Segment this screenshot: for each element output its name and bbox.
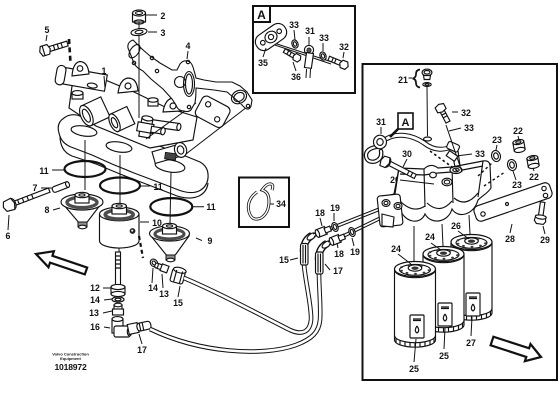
svg-text:11: 11 [206,202,215,212]
svg-text:33: 33 [464,123,474,133]
svg-text:18: 18 [315,208,325,218]
svg-text:21: 21 [398,75,408,85]
svg-text:14: 14 [148,283,158,293]
svg-text:25: 25 [439,351,449,361]
svg-text:32: 32 [461,108,471,118]
svg-text:33: 33 [475,149,485,159]
svg-text:28: 28 [505,234,515,244]
svg-text:2: 2 [161,11,166,21]
svg-text:24: 24 [425,232,435,242]
svg-text:31: 31 [376,117,386,127]
svg-text:27: 27 [466,338,476,348]
svg-text:16: 16 [90,322,100,332]
svg-text:33: 33 [319,33,329,43]
svg-text:A: A [402,117,410,129]
svg-text:30: 30 [402,149,412,159]
svg-text:8: 8 [45,205,50,215]
svg-text:13: 13 [89,308,99,318]
svg-text:36: 36 [291,72,301,82]
svg-text:17: 17 [333,266,343,276]
svg-text:26: 26 [451,221,461,231]
svg-text:19: 19 [330,203,340,213]
svg-text:15: 15 [279,255,289,265]
svg-text:1018972: 1018972 [54,362,86,372]
svg-text:23: 23 [492,135,502,145]
svg-text:29: 29 [540,235,550,245]
svg-text:12: 12 [90,283,100,293]
svg-text:7: 7 [33,183,38,193]
svg-text:9: 9 [208,236,213,246]
svg-text:18: 18 [334,249,344,259]
svg-text:24: 24 [391,244,401,254]
svg-text:23: 23 [512,180,522,190]
svg-text:34: 34 [276,199,286,209]
svg-text:14: 14 [90,295,100,305]
svg-text:17: 17 [137,345,147,355]
svg-text:4: 4 [186,41,191,51]
svg-text:22: 22 [513,126,523,136]
svg-text:22: 22 [529,172,539,182]
svg-text:3: 3 [161,28,166,38]
svg-text:31: 31 [305,26,315,36]
svg-text:11: 11 [39,166,48,176]
svg-text:33: 33 [289,20,299,30]
svg-text:19: 19 [350,247,360,257]
svg-text:32: 32 [339,42,349,52]
svg-text:25: 25 [409,364,419,374]
svg-text:A: A [257,8,266,22]
svg-text:5: 5 [45,25,50,35]
svg-text:13: 13 [159,289,169,299]
svg-text:15: 15 [173,298,183,308]
svg-text:6: 6 [6,231,11,241]
svg-text:35: 35 [258,58,268,68]
svg-text:Equipment: Equipment [60,356,81,361]
